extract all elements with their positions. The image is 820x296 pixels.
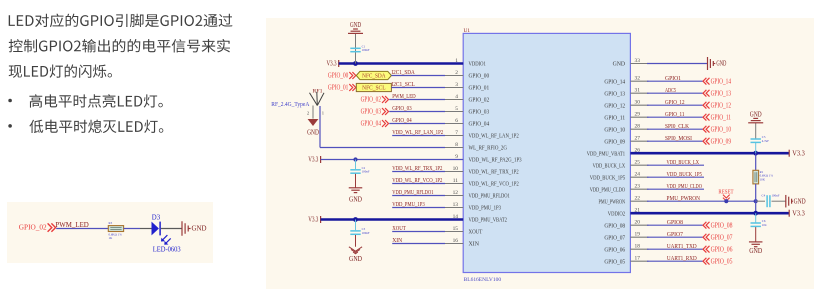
svg-text:GPIO_14: GPIO_14 — [604, 78, 625, 85]
svg-text:ADC5: ADC5 — [665, 87, 676, 94]
svg-text:VDD_BUCK_1P5: VDD_BUCK_1P5 — [667, 171, 702, 178]
svg-text:13: 13 — [453, 202, 459, 208]
svg-text:VDD_PMU_VBAT2: VDD_PMU_VBAT2 — [469, 217, 507, 224]
svg-text:XIN: XIN — [469, 241, 480, 248]
svg-text:16: 16 — [453, 238, 459, 244]
svg-text:GPIO_05: GPIO_05 — [711, 257, 733, 265]
svg-text:U1: U1 — [464, 28, 471, 34]
svg-text:8: 8 — [455, 142, 458, 148]
svg-text:GPIO_08: GPIO_08 — [604, 222, 625, 229]
svg-text:GPIO_06: GPIO_06 — [604, 246, 625, 253]
svg-text:GPIO_13: GPIO_13 — [711, 89, 732, 97]
svg-text:10: 10 — [453, 166, 459, 172]
svg-text:GPIO_02: GPIO_02 — [19, 223, 47, 232]
svg-text:6: 6 — [455, 118, 458, 124]
svg-text:GND: GND — [749, 248, 762, 255]
svg-text:VDD_PMU_CLDO: VDD_PMU_CLDO — [667, 183, 703, 190]
svg-text:VDD_PMU_RFLDO1: VDD_PMU_RFLDO1 — [392, 189, 433, 196]
svg-text:VDD_WL_RF_TRX_1P2: VDD_WL_RF_TRX_1P2 — [469, 169, 519, 176]
svg-text:29: 29 — [635, 112, 641, 118]
svg-text:VDD_BUCK_LX: VDD_BUCK_LX — [667, 159, 700, 166]
svg-text:GPIO_11: GPIO_11 — [665, 111, 685, 118]
svg-text:4.7uF: 4.7uF — [762, 139, 769, 143]
svg-text:NFC_SDA: NFC_SDA — [362, 73, 386, 80]
svg-text:V3.3: V3.3 — [792, 210, 805, 217]
svg-text:GPIO_11: GPIO_11 — [604, 114, 625, 121]
svg-text:GPIO_02: GPIO_02 — [361, 96, 382, 104]
svg-text:WL_RF_RFIO_2G: WL_RF_RFIO_2G — [469, 145, 508, 152]
svg-text:BL616ENLV100: BL616ENLV100 — [464, 277, 502, 283]
svg-text:XOUT: XOUT — [392, 225, 406, 232]
svg-text:D3: D3 — [152, 214, 161, 221]
svg-text:GPIO_00: GPIO_00 — [469, 73, 490, 80]
svg-text:GPIO_13: GPIO_13 — [604, 90, 625, 97]
svg-text:17: 17 — [635, 256, 641, 262]
svg-text:SPI0_MOSI: SPI0_MOSI — [665, 135, 692, 142]
svg-text:PMU_PWRON: PMU_PWRON — [667, 195, 701, 202]
svg-text:GPIO_10: GPIO_10 — [711, 125, 732, 133]
svg-text:33: 33 — [635, 58, 641, 64]
svg-text:VDD_WL_RF_LAN_1P2: VDD_WL_RF_LAN_1P2 — [392, 129, 443, 136]
svg-text:28: 28 — [635, 124, 641, 130]
svg-text:VDDIO2: VDDIO2 — [608, 210, 625, 217]
svg-text:GPIO_11: GPIO_11 — [711, 113, 732, 121]
svg-text:RF1: RF1 — [313, 88, 323, 94]
svg-text:GPIO_06: GPIO_06 — [711, 245, 733, 253]
svg-text:VDDIO1: VDDIO1 — [469, 61, 486, 68]
svg-text:GPIO_08: GPIO_08 — [711, 221, 733, 229]
svg-text:15: 15 — [453, 226, 459, 232]
svg-text:100nF: 100nF — [362, 48, 370, 52]
svg-text:GND: GND — [350, 22, 361, 29]
svg-text:VDD_WL_RF_VCO_1P2: VDD_WL_RF_VCO_1P2 — [392, 177, 442, 184]
svg-text:31: 31 — [635, 88, 641, 94]
svg-text:VDD_PMU_1P3: VDD_PMU_1P3 — [469, 205, 502, 212]
svg-text:GND: GND — [794, 198, 806, 205]
svg-text:VDD_PMU_VBAT1: VDD_PMU_VBAT1 — [587, 150, 625, 157]
svg-text:32: 32 — [635, 76, 641, 82]
svg-text:PWM_LED: PWM_LED — [55, 220, 89, 229]
svg-text:VDD_PMU_1P3: VDD_PMU_1P3 — [392, 201, 425, 208]
svg-text:RF_2.4G_TypeA: RF_2.4G_TypeA — [271, 102, 310, 108]
svg-text:GND: GND — [349, 196, 362, 203]
svg-text:25: 25 — [635, 160, 641, 166]
svg-text:V3.3: V3.3 — [308, 217, 318, 224]
svg-text:12: 12 — [453, 190, 459, 196]
svg-text:2: 2 — [455, 70, 458, 76]
svg-text:GPIO_12: GPIO_12 — [711, 101, 732, 109]
svg-text:22: 22 — [635, 196, 641, 202]
svg-text:100nF: 100nF — [362, 231, 370, 235]
svg-text:GPIO_09: GPIO_09 — [604, 138, 625, 145]
svg-text:GND: GND — [307, 130, 319, 137]
svg-text:20: 20 — [635, 220, 641, 226]
svg-text:GPIO_12: GPIO_12 — [665, 99, 685, 106]
svg-text:V3.3: V3.3 — [327, 61, 337, 68]
svg-text:GND: GND — [192, 224, 207, 233]
svg-text:7: 7 — [455, 130, 458, 136]
svg-text:NFC_SCL: NFC_SCL — [362, 85, 385, 92]
svg-text:GPIO_02: GPIO_02 — [469, 97, 490, 104]
svg-text:GPIO8: GPIO8 — [667, 219, 683, 226]
svg-text:GPIO_10: GPIO_10 — [604, 126, 625, 133]
svg-text:VDD_PMU_RFLDO1: VDD_PMU_RFLDO1 — [469, 193, 510, 200]
svg-text:R3: R3 — [109, 221, 113, 225]
svg-text:24: 24 — [635, 172, 641, 178]
svg-text:GPIO_03: GPIO_03 — [469, 109, 490, 116]
svg-text:RESET: RESET — [718, 189, 733, 196]
svg-text:UART1_RXD: UART1_RXD — [667, 255, 697, 262]
svg-text:GPIO_04: GPIO_04 — [392, 117, 412, 124]
svg-text:UART1_TXD: UART1_TXD — [667, 243, 697, 250]
svg-text:SPI0_CLK: SPI0_CLK — [665, 123, 689, 130]
svg-text:V3.3: V3.3 — [308, 157, 318, 164]
svg-text:GPIO_03: GPIO_03 — [392, 105, 412, 112]
svg-text:GPIO_12: GPIO_12 — [604, 102, 625, 109]
svg-text:GPIO_01: GPIO_01 — [469, 85, 490, 92]
svg-text:30: 30 — [635, 100, 641, 106]
svg-text:PWM_LED: PWM_LED — [392, 93, 416, 100]
svg-text:GND: GND — [716, 61, 726, 68]
svg-text:100nF: 100nF — [772, 193, 780, 197]
svg-text:VDD_WL_RF_TRX_1P2: VDD_WL_RF_TRX_1P2 — [392, 165, 442, 172]
svg-text:GPIO_14: GPIO_14 — [711, 77, 732, 85]
svg-text:VDD_WL_RF_PA2G_1P3: VDD_WL_RF_PA2G_1P3 — [469, 157, 522, 164]
svg-text:GPIO_04: GPIO_04 — [361, 120, 382, 128]
svg-text:I2C1_SCL: I2C1_SCL — [391, 81, 415, 88]
svg-text:GPIO_03: GPIO_03 — [361, 108, 382, 116]
svg-text:4: 4 — [455, 94, 458, 100]
svg-text:PMU_PWRON: PMU_PWRON — [599, 198, 626, 205]
svg-text:11: 11 — [453, 178, 458, 184]
svg-text:5: 5 — [455, 106, 458, 112]
svg-text:XIN: XIN — [392, 237, 402, 244]
svg-text:104: 104 — [762, 223, 767, 227]
svg-text:GPIO_07: GPIO_07 — [711, 233, 733, 241]
svg-text:3: 3 — [455, 82, 458, 88]
svg-text:XOUT: XOUT — [469, 229, 483, 236]
svg-text:GPIO_04: GPIO_04 — [469, 121, 490, 128]
svg-text:GND: GND — [349, 256, 362, 263]
svg-text:GPIO_01: GPIO_01 — [328, 84, 349, 92]
svg-text:GPIO1: GPIO1 — [665, 75, 681, 82]
svg-text:23: 23 — [635, 184, 641, 190]
svg-text:C4: C4 — [762, 193, 766, 197]
svg-text:27: 27 — [635, 136, 641, 142]
svg-text:GPIO_09: GPIO_09 — [711, 137, 732, 145]
svg-text:18: 18 — [635, 244, 641, 250]
svg-text:VDD_BUCK_LX: VDD_BUCK_LX — [593, 162, 626, 169]
svg-text:GND: GND — [750, 112, 762, 119]
svg-text:10K: 10K — [760, 177, 766, 181]
svg-text:VDD_PMU_CLDO: VDD_PMU_CLDO — [590, 186, 626, 193]
svg-text:GPIO7: GPIO7 — [667, 231, 683, 238]
svg-text:VDD_WL_RF_VCO_1P2: VDD_WL_RF_VCO_1P2 — [469, 181, 519, 188]
svg-text:GPIO_05: GPIO_05 — [604, 258, 625, 265]
svg-text:GPIO_07: GPIO_07 — [604, 234, 625, 241]
svg-text:100nF: 100nF — [362, 170, 370, 174]
svg-text:V3.3: V3.3 — [792, 150, 805, 157]
svg-text:19: 19 — [635, 232, 641, 238]
svg-text:GPIO_00: GPIO_00 — [328, 72, 349, 80]
svg-text:I2C1_SDA: I2C1_SDA — [391, 69, 415, 76]
svg-text:VDD_WL_RF_LAN_1P2: VDD_WL_RF_LAN_1P2 — [469, 133, 519, 140]
svg-text:VDD_BUCK_1P5: VDD_BUCK_1P5 — [590, 174, 625, 181]
svg-text:LED-0603: LED-0603 — [153, 245, 181, 253]
svg-text:GND: GND — [613, 61, 626, 68]
